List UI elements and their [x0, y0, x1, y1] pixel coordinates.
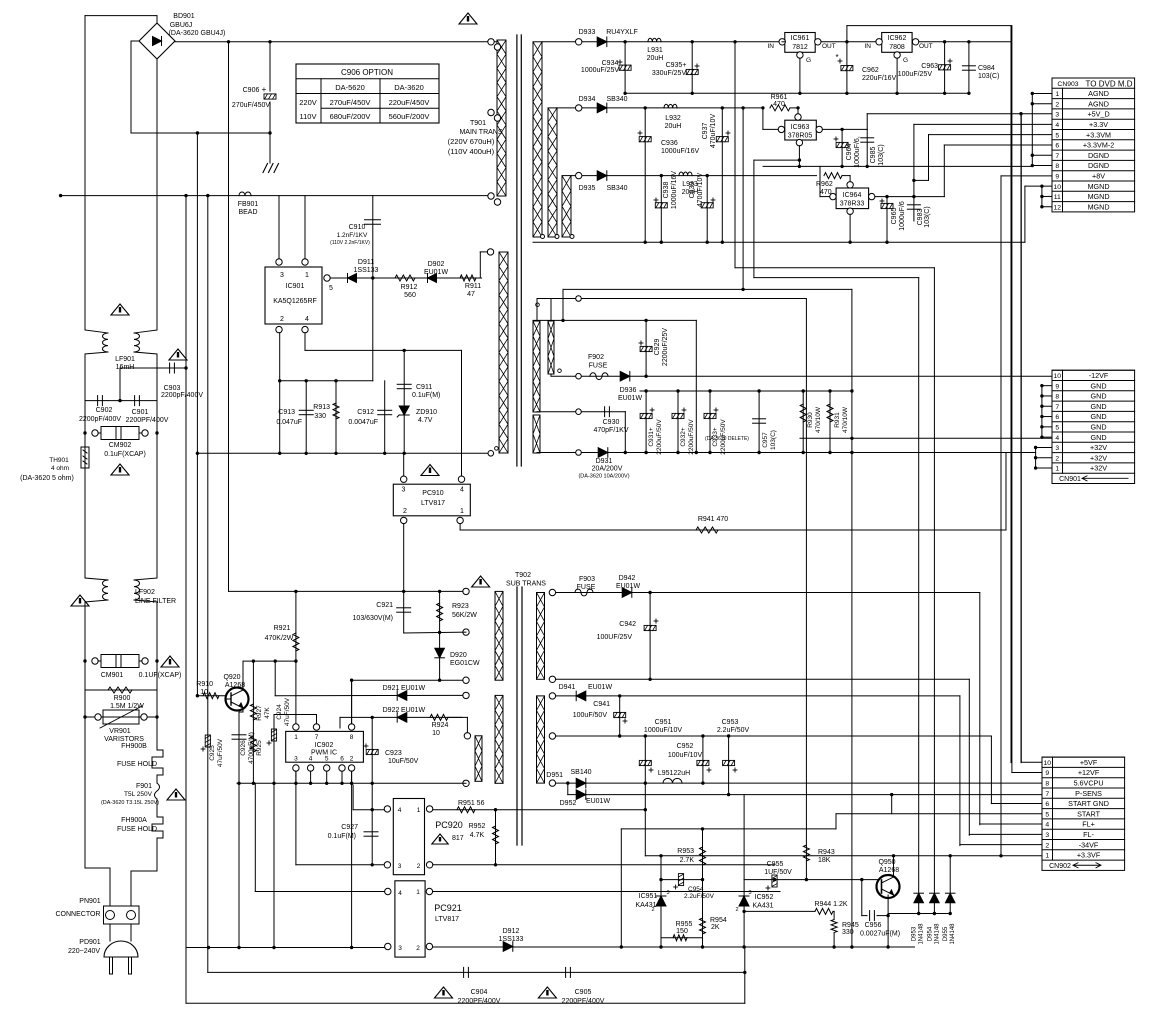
- svg-text:C913: C913: [278, 409, 295, 416]
- svg-text:7: 7: [315, 734, 319, 741]
- svg-text:OUT: OUT: [919, 43, 933, 50]
- svg-text:FH900A: FH900A: [121, 817, 147, 824]
- svg-text:2: 2: [1055, 101, 1059, 108]
- svg-text:1: 1: [460, 508, 464, 515]
- svg-text:20uH: 20uH: [665, 123, 682, 130]
- svg-text:GND: GND: [1091, 381, 1107, 390]
- svg-text:SB340: SB340: [606, 96, 627, 103]
- svg-text:R910: R910: [196, 681, 213, 688]
- svg-text:560uF/200V: 560uF/200V: [389, 112, 430, 121]
- svg-text:470uF/10V: 470uF/10V: [697, 173, 704, 208]
- svg-text:18K: 18K: [818, 857, 831, 864]
- svg-text:D951: D951: [546, 772, 563, 779]
- svg-text:LTV817: LTV817: [435, 916, 459, 923]
- svg-text:C936: C936: [661, 140, 678, 147]
- svg-text:L932: L932: [665, 115, 681, 122]
- svg-text:FUSE: FUSE: [577, 584, 596, 591]
- svg-text:GBU6J: GBU6J: [170, 22, 193, 29]
- svg-text:103/630V(M): 103/630V(M): [353, 615, 393, 622]
- svg-text:GND: GND: [1091, 433, 1107, 442]
- svg-text:4: 4: [1045, 822, 1049, 829]
- svg-text:378R33: 378R33: [840, 201, 865, 208]
- svg-text:8: 8: [1045, 781, 1049, 788]
- svg-text:C942: C942: [619, 621, 636, 628]
- svg-text:(110V 2.2nF/1KV): (110V 2.2nF/1KV): [330, 240, 370, 246]
- svg-text:2.2uF/50V: 2.2uF/50V: [717, 727, 750, 734]
- svg-text:MAIN TRANS: MAIN TRANS: [459, 129, 502, 136]
- svg-text:FUSE: FUSE: [589, 363, 608, 370]
- svg-text:EU01W: EU01W: [401, 685, 426, 692]
- svg-text:BEAD: BEAD: [238, 209, 257, 216]
- svg-text:1N4148: 1N4148: [919, 923, 925, 945]
- svg-text:330uF/25V: 330uF/25V: [652, 70, 687, 77]
- svg-text:47uF/50V: 47uF/50V: [217, 738, 224, 767]
- svg-text:20uH: 20uH: [647, 55, 664, 62]
- svg-text:C941: C941: [593, 701, 610, 708]
- svg-text:+3.3VM: +3.3VM: [1086, 130, 1111, 139]
- svg-text:ZD910: ZD910: [416, 409, 437, 416]
- svg-text:SUB TRANS: SUB TRANS: [506, 581, 546, 588]
- svg-text:2: 2: [1055, 455, 1059, 462]
- svg-text:PC921: PC921: [434, 903, 462, 913]
- svg-text:C910: C910: [349, 224, 366, 231]
- svg-text:2: 2: [280, 316, 284, 323]
- svg-text:EU01W: EU01W: [424, 269, 449, 276]
- svg-text:GND: GND: [1091, 412, 1107, 421]
- svg-text:6: 6: [340, 756, 344, 763]
- svg-text:IC961: IC961: [791, 35, 810, 42]
- svg-text:F903: F903: [579, 576, 595, 583]
- svg-text:A1268: A1268: [225, 682, 245, 689]
- svg-text:5: 5: [1055, 425, 1059, 432]
- svg-text:9: 9: [1055, 174, 1059, 181]
- svg-text:D942: D942: [619, 575, 636, 582]
- svg-text:470pF/1KV: 470pF/1KV: [593, 427, 628, 434]
- svg-text:C902: C902: [96, 407, 113, 414]
- svg-text:R925: R925: [256, 740, 263, 756]
- svg-text:R913: R913: [313, 404, 330, 411]
- svg-text:378R05: 378R05: [788, 133, 813, 140]
- svg-text:1000uF/6,: 1000uF/6,: [854, 136, 861, 168]
- svg-text:GND: GND: [1091, 392, 1107, 401]
- svg-text:D955: D955: [943, 926, 949, 941]
- svg-text:L931: L931: [647, 47, 663, 54]
- svg-text:DA-3620: DA-3620: [394, 83, 424, 92]
- svg-text:IC901: IC901: [286, 283, 305, 290]
- svg-text:5: 5: [1045, 811, 1049, 818]
- svg-text:C984: C984: [978, 65, 995, 72]
- svg-text:C955: C955: [767, 861, 784, 868]
- svg-text:GND: GND: [1091, 402, 1107, 411]
- svg-text:1: 1: [1045, 853, 1049, 860]
- svg-text:2: 2: [416, 945, 420, 952]
- svg-text:6: 6: [1045, 801, 1049, 808]
- svg-text:FUSE HOLD: FUSE HOLD: [117, 826, 157, 833]
- svg-text:*: *: [835, 53, 838, 62]
- svg-text:3: 3: [1055, 112, 1059, 119]
- svg-text:4: 4: [309, 756, 313, 763]
- svg-text:7808: 7808: [889, 44, 905, 51]
- svg-text:OUT: OUT: [822, 43, 836, 50]
- svg-text:(DA-3620 T3.15L 250V): (DA-3620 T3.15L 250V): [101, 800, 159, 806]
- svg-text:EU01W: EU01W: [616, 583, 641, 590]
- svg-text:D933: D933: [579, 29, 596, 36]
- svg-text:CM902: CM902: [109, 442, 132, 449]
- svg-text:1000uF/16V: 1000uF/16V: [661, 148, 699, 155]
- svg-text:10: 10: [1043, 760, 1051, 767]
- svg-text:R923: R923: [452, 603, 469, 610]
- svg-text:D941: D941: [559, 684, 576, 691]
- svg-text:(220V 670uH): (220V 670uH): [448, 137, 495, 146]
- svg-text:103(C): 103(C): [770, 430, 777, 450]
- svg-text:+5VF: +5VF: [1080, 758, 1098, 767]
- svg-text:1SS133: 1SS133: [499, 936, 524, 943]
- svg-text:FL+: FL+: [1082, 820, 1095, 829]
- svg-text:11: 11: [1054, 194, 1061, 201]
- svg-text:R962: R962: [816, 181, 833, 188]
- svg-text:817: 817: [452, 835, 464, 842]
- svg-text:47K: 47K: [264, 707, 271, 719]
- svg-text:R943: R943: [818, 849, 835, 856]
- svg-text:C932+: C932+: [680, 427, 687, 447]
- svg-text:C921: C921: [376, 602, 393, 609]
- svg-text:R931: R931: [834, 412, 841, 428]
- svg-text:VR901: VR901: [109, 728, 131, 735]
- svg-text:103(C): 103(C): [978, 73, 999, 80]
- svg-text:5: 5: [329, 285, 333, 292]
- svg-text:470/10W: 470/10W: [815, 406, 822, 433]
- svg-text:IC962: IC962: [888, 35, 907, 42]
- svg-text:C983: C983: [917, 209, 924, 226]
- svg-text:+5V_D: +5V_D: [1087, 110, 1109, 119]
- svg-text:C954: C954: [688, 886, 704, 893]
- svg-text:1.2nF/1KV: 1.2nF/1KV: [337, 232, 368, 239]
- svg-text:R921: R921: [274, 625, 291, 632]
- svg-text:C937: C937: [702, 123, 709, 140]
- svg-text:R954: R954: [710, 917, 727, 924]
- svg-text:4: 4: [460, 487, 464, 494]
- svg-text:4: 4: [398, 890, 402, 897]
- svg-text:3: 3: [666, 890, 669, 896]
- svg-text:C929: C929: [654, 339, 661, 356]
- svg-text:R953: R953: [677, 848, 694, 855]
- svg-text:D953: D953: [912, 926, 918, 941]
- svg-text:C926: C926: [240, 740, 247, 756]
- svg-text:103(C): 103(C): [924, 206, 931, 227]
- svg-text:5: 5: [1055, 132, 1059, 139]
- svg-text:470uF/10V: 470uF/10V: [710, 114, 717, 149]
- svg-text:C952: C952: [677, 743, 694, 750]
- svg-text:220V: 220V: [299, 98, 317, 107]
- svg-text:C923: C923: [385, 750, 402, 757]
- svg-text:LF901: LF901: [115, 356, 135, 363]
- svg-text:C963: C963: [921, 63, 938, 70]
- svg-text:(DA-3620 GBU4J): (DA-3620 GBU4J): [169, 30, 226, 37]
- svg-text:C924: C924: [276, 704, 283, 720]
- svg-text:1: 1: [305, 272, 309, 279]
- svg-text:C904: C904: [471, 989, 488, 996]
- svg-text:EU01W: EU01W: [618, 395, 643, 402]
- svg-text:-12VF: -12VF: [1089, 371, 1109, 380]
- svg-text:7: 7: [1055, 404, 1059, 411]
- svg-text:1UF/50V: 1UF/50V: [764, 869, 792, 876]
- svg-text:IC964: IC964: [843, 192, 862, 199]
- svg-text:2: 2: [417, 863, 421, 870]
- svg-text:TH901: TH901: [49, 457, 69, 464]
- svg-text:L95122uH: L95122uH: [658, 770, 690, 777]
- svg-text:3: 3: [398, 945, 402, 952]
- svg-text:100uF/10V: 100uF/10V: [668, 752, 703, 759]
- svg-text:VARISTORS: VARISTORS: [104, 736, 144, 743]
- svg-text:10uF/50V: 10uF/50V: [388, 758, 419, 765]
- svg-text:4: 4: [305, 316, 309, 323]
- svg-text:1SS133: 1SS133: [354, 267, 379, 274]
- svg-text:D931: D931: [596, 458, 613, 465]
- svg-text:10: 10: [1053, 184, 1061, 191]
- svg-text:4: 4: [1055, 435, 1059, 442]
- svg-text:2200pF/400V: 2200pF/400V: [161, 392, 203, 399]
- svg-text:MGND: MGND: [1088, 202, 1110, 211]
- svg-text:GND: GND: [1091, 423, 1107, 432]
- svg-text:100uF/25V: 100uF/25V: [898, 71, 933, 78]
- svg-text:+32V: +32V: [1090, 443, 1107, 452]
- svg-text:CN903: CN903: [1057, 81, 1078, 88]
- svg-text:IC952: IC952: [755, 894, 774, 901]
- svg-text:MGND: MGND: [1088, 182, 1110, 191]
- svg-text:2200uF/50V: 2200uF/50V: [656, 419, 663, 455]
- svg-text:+12VF: +12VF: [1078, 768, 1100, 777]
- svg-text:P-SENS: P-SENS: [1075, 789, 1102, 798]
- svg-text:PC910: PC910: [422, 490, 444, 497]
- svg-text:G: G: [806, 57, 811, 64]
- svg-text:100UF/25V: 100UF/25V: [597, 634, 633, 641]
- svg-text:IC902: IC902: [315, 742, 334, 749]
- svg-text:1: 1: [416, 889, 420, 896]
- svg-text:C930: C930: [603, 419, 620, 426]
- svg-text:PC920: PC920: [435, 820, 463, 830]
- svg-text:12: 12: [1053, 204, 1061, 211]
- svg-text:220~240V: 220~240V: [68, 948, 100, 955]
- svg-text:D912: D912: [503, 928, 520, 935]
- svg-text:BD901: BD901: [173, 13, 195, 20]
- svg-text:56K/2W: 56K/2W: [452, 612, 477, 619]
- svg-text:+: +: [262, 85, 267, 94]
- svg-text:8: 8: [350, 734, 354, 741]
- svg-text:C901: C901: [132, 409, 149, 416]
- svg-text:0.0047uF: 0.0047uF: [348, 419, 378, 426]
- svg-text:+8V: +8V: [1092, 172, 1105, 181]
- svg-text:IN: IN: [768, 43, 775, 50]
- svg-text:470: 470: [773, 101, 785, 108]
- svg-text:2200uF/25V: 2200uF/25V: [662, 328, 669, 366]
- svg-text:START: START: [1077, 809, 1101, 818]
- svg-text:4 ohm: 4 ohm: [51, 465, 69, 472]
- svg-text:R941 470: R941 470: [698, 516, 728, 523]
- svg-text:Q920: Q920: [223, 674, 240, 681]
- svg-text:DGND: DGND: [1088, 161, 1109, 170]
- svg-text:RU4YXLF: RU4YXLF: [606, 29, 638, 36]
- svg-text:220uF/450V: 220uF/450V: [389, 98, 430, 107]
- svg-text:D922: D922: [383, 707, 400, 714]
- svg-text:9: 9: [1045, 770, 1049, 777]
- svg-text:2: 2: [403, 508, 407, 515]
- svg-text:AGND: AGND: [1088, 89, 1109, 98]
- svg-text:PD901: PD901: [79, 939, 101, 946]
- svg-text:1000uF/16V: 1000uF/16V: [671, 171, 678, 209]
- svg-text:LF902: LF902: [135, 589, 155, 596]
- svg-text:+32V: +32V: [1090, 453, 1107, 462]
- svg-text:LINE FILTER: LINE FILTER: [135, 598, 176, 605]
- svg-text:EU01W: EU01W: [586, 798, 611, 805]
- svg-text:EG01CW: EG01CW: [450, 660, 480, 667]
- svg-text:CONNECTOR: CONNECTOR: [56, 911, 101, 918]
- svg-text:EU01W: EU01W: [401, 707, 426, 714]
- svg-text:(110V 400uH): (110V 400uH): [448, 147, 495, 156]
- svg-text:2: 2: [1045, 842, 1049, 849]
- svg-text:3: 3: [1045, 832, 1049, 839]
- svg-text:9: 9: [1055, 383, 1059, 390]
- svg-text:FB901: FB901: [238, 201, 259, 208]
- svg-text:C911: C911: [416, 384, 432, 391]
- svg-text:MGND: MGND: [1088, 192, 1110, 201]
- svg-text:KA5Q1265RF: KA5Q1265RF: [273, 298, 317, 305]
- svg-text:D920: D920: [450, 652, 467, 659]
- svg-text:R911: R911: [465, 283, 481, 290]
- svg-text:1: 1: [294, 734, 298, 741]
- svg-text:2K: 2K: [711, 924, 720, 931]
- svg-text:C903: C903: [164, 385, 181, 392]
- svg-text:D935: D935: [579, 185, 596, 192]
- svg-text:FH900B: FH900B: [121, 743, 147, 750]
- svg-text:C964: C964: [846, 144, 853, 161]
- svg-text:C927: C927: [341, 824, 358, 831]
- svg-text:4.7K: 4.7K: [470, 832, 485, 839]
- svg-text:1000uF/6: 1000uF/6: [899, 201, 906, 231]
- svg-text:0.1uF(XCAP): 0.1uF(XCAP): [104, 451, 146, 458]
- svg-text:T902: T902: [515, 572, 531, 579]
- svg-text:AGND: AGND: [1088, 99, 1109, 108]
- svg-text:8: 8: [1055, 394, 1059, 401]
- svg-text:4.7V: 4.7V: [418, 417, 433, 424]
- svg-text:CM901: CM901: [101, 672, 124, 679]
- svg-text:3: 3: [402, 487, 406, 494]
- svg-text:C935+: C935+: [666, 62, 687, 69]
- svg-text:10: 10: [432, 730, 440, 737]
- svg-text:C965: C965: [891, 208, 898, 225]
- svg-text:C906: C906: [243, 87, 260, 94]
- svg-text:R944 1.2K: R944 1.2K: [814, 901, 847, 908]
- svg-text:CN901: CN901: [1059, 476, 1081, 483]
- svg-text:100uF/50V: 100uF/50V: [573, 712, 608, 719]
- svg-text:(DA-3620 5 ohm): (DA-3620 5 ohm): [20, 475, 74, 482]
- svg-text:+32V: +32V: [1090, 464, 1107, 473]
- svg-text:FUSE HOLD: FUSE HOLD: [117, 761, 157, 768]
- svg-text:C906 OPTION: C906 OPTION: [341, 68, 393, 77]
- svg-text:2200uF/50V: 2200uF/50V: [688, 419, 695, 455]
- svg-text:F901: F901: [136, 783, 152, 790]
- svg-text:1.5M 1/2W: 1.5M 1/2W: [110, 703, 144, 710]
- svg-text:+3.3V: +3.3V: [1089, 120, 1108, 129]
- svg-text:IN: IN: [865, 43, 872, 50]
- svg-text:5: 5: [325, 756, 329, 763]
- svg-text:330: 330: [314, 413, 326, 420]
- svg-text:R912: R912: [401, 284, 418, 291]
- svg-text:D954: D954: [927, 926, 933, 941]
- svg-text:1: 1: [1055, 91, 1059, 98]
- svg-text:7: 7: [1055, 153, 1059, 160]
- svg-text:3: 3: [748, 890, 751, 896]
- svg-text:C939: C939: [689, 182, 696, 199]
- svg-text:2200PF/400V: 2200PF/400V: [562, 998, 605, 1005]
- svg-text:D936: D936: [620, 387, 637, 394]
- svg-text:2.7K: 2.7K: [680, 857, 695, 864]
- svg-text:IC963: IC963: [791, 124, 810, 131]
- svg-text:5.6VCPU: 5.6VCPU: [1074, 779, 1104, 788]
- svg-text:47uF/50V: 47uF/50V: [284, 697, 291, 726]
- svg-text:SB340: SB340: [606, 185, 627, 192]
- svg-text:270uF/450V: 270uF/450V: [330, 98, 371, 107]
- svg-text:SB140: SB140: [570, 769, 591, 776]
- svg-text:270uF/450V: 270uF/450V: [232, 102, 270, 109]
- svg-text:-34VF: -34VF: [1079, 840, 1099, 849]
- svg-text:C951: C951: [655, 719, 672, 726]
- svg-text:C956: C956: [865, 922, 882, 929]
- svg-text:6: 6: [1055, 414, 1059, 421]
- svg-text:D911: D911: [358, 259, 374, 266]
- svg-text:680uF/200V: 680uF/200V: [330, 112, 371, 121]
- svg-text:R924: R924: [432, 722, 449, 729]
- svg-text:C931+: C931+: [648, 427, 655, 447]
- svg-text:3: 3: [280, 272, 284, 279]
- svg-text:C905: C905: [575, 989, 592, 996]
- svg-text:1000uF/25V: 1000uF/25V: [581, 67, 619, 74]
- svg-text:START GND: START GND: [1068, 799, 1109, 808]
- svg-text:560: 560: [404, 292, 416, 299]
- svg-text:110V: 110V: [300, 112, 317, 121]
- svg-text:0.047uF: 0.047uF: [276, 419, 302, 426]
- svg-text:+3.3VF: +3.3VF: [1077, 851, 1101, 860]
- svg-text:20A/200V: 20A/200V: [592, 466, 623, 473]
- svg-text:DGND: DGND: [1088, 151, 1109, 160]
- svg-text:2: 2: [735, 907, 738, 913]
- svg-text:T5L 250V: T5L 250V: [124, 791, 153, 798]
- svg-text:2.2uF/50V: 2.2uF/50V: [684, 893, 715, 900]
- svg-text:R900: R900: [114, 695, 131, 702]
- svg-text:R961: R961: [771, 94, 788, 101]
- svg-text:3: 3: [1055, 445, 1059, 452]
- svg-text:KA431: KA431: [752, 903, 773, 910]
- svg-text:+3.3VM-2: +3.3VM-2: [1083, 141, 1114, 150]
- svg-text:R927: R927: [256, 705, 263, 721]
- svg-text:1: 1: [417, 807, 421, 814]
- svg-text:6: 6: [1055, 143, 1059, 150]
- svg-text:1: 1: [1055, 466, 1059, 473]
- svg-text:10: 10: [200, 689, 208, 696]
- svg-text:1000uF/10V: 1000uF/10V: [644, 727, 682, 734]
- svg-text:C957: C957: [762, 432, 769, 448]
- svg-text:4: 4: [398, 807, 402, 814]
- svg-text:10: 10: [1053, 373, 1061, 380]
- svg-text:LTV817: LTV817: [421, 500, 445, 507]
- svg-text:2200PF/400V: 2200PF/400V: [126, 417, 169, 424]
- svg-text:IC951: IC951: [639, 893, 658, 900]
- svg-text:7812: 7812: [792, 44, 808, 51]
- svg-text:R930: R930: [807, 412, 814, 428]
- svg-text:C934: C934: [602, 60, 619, 67]
- svg-text:FL-: FL-: [1083, 830, 1094, 839]
- svg-text:4: 4: [1055, 122, 1059, 129]
- svg-text:2200pF/400V: 2200pF/400V: [79, 416, 121, 423]
